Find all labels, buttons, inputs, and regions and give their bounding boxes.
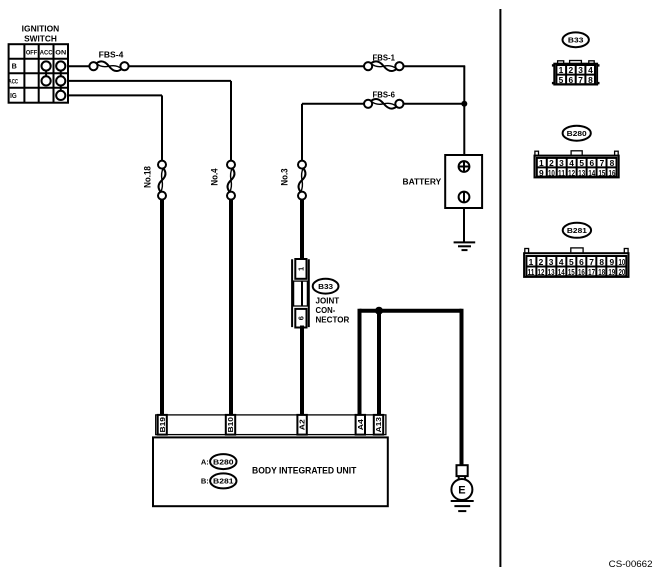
contact circle B-ACC: [42, 61, 51, 70]
SECTION: ground bus: [360, 307, 462, 466]
svg-text:6: 6: [579, 257, 584, 267]
svg-text:B: B: [12, 62, 17, 71]
connector B280 body: [535, 156, 619, 178]
SECTION: body integrated unit: [153, 415, 388, 506]
connector B33 pin numbers row 1: [559, 65, 594, 75]
svg-text:10: 10: [618, 257, 625, 267]
svg-text:NECTOR: NECTOR: [316, 315, 350, 325]
connector B33 tabs: [558, 61, 595, 65]
svg-text:5: 5: [559, 75, 564, 85]
svg-text:IG: IG: [10, 91, 17, 100]
SECTION: ground E: [451, 465, 474, 511]
connector B280 pin numbers row 2: [539, 168, 616, 178]
svg-text:16: 16: [578, 267, 585, 277]
svg-text:3: 3: [578, 65, 583, 75]
svg-text:CS-00662: CS-00662: [609, 559, 653, 570]
svg-text:4: 4: [559, 257, 564, 267]
svg-text:3: 3: [559, 158, 564, 168]
wire IG row to No.18 drop: [68, 94, 162, 96]
ground E terminal box: [457, 465, 468, 476]
wire FBS-6 to junction: [404, 103, 465, 105]
svg-text:B281: B281: [213, 477, 234, 486]
connector B281 pin numbers row 2: [527, 267, 625, 277]
svg-text:BODY INTEGRATED UNIT: BODY INTEGRATED UNIT: [252, 465, 357, 475]
svg-text:13: 13: [578, 168, 585, 178]
svg-text:6: 6: [568, 75, 573, 85]
svg-text:A:: A:: [201, 457, 209, 466]
svg-text:17: 17: [588, 267, 595, 277]
connector B281 tabs: [525, 248, 628, 253]
SECTION: right panel: [500, 9, 652, 570]
svg-text:6: 6: [589, 158, 594, 168]
svg-text:12: 12: [568, 168, 575, 178]
svg-text:FBS-4: FBS-4: [99, 51, 124, 60]
svg-text:4: 4: [588, 65, 593, 75]
unit body box: [153, 437, 388, 506]
svg-text:BATTERY: BATTERY: [403, 177, 442, 187]
svg-text:8: 8: [588, 75, 593, 85]
fuse No.3: [298, 161, 306, 200]
svg-text:16: 16: [609, 168, 616, 178]
svg-text:19: 19: [608, 267, 615, 277]
wire FBS-1 to battery drop: [404, 65, 465, 67]
battery box: [445, 155, 482, 208]
wire battery drop vertical: [463, 66, 465, 155]
wire ground bus horizontal (thick): [360, 309, 462, 313]
connector B280 cell grid: [537, 158, 617, 177]
wire No.18 to B19 (thick): [160, 199, 164, 416]
joint connector pin 1 box: [295, 259, 306, 279]
battery plus terminal: [459, 161, 470, 172]
svg-text:No.18: No.18: [142, 166, 152, 188]
wire A4 drop (thick): [358, 309, 362, 416]
svg-text:No.3: No.3: [280, 168, 290, 185]
svg-text:5: 5: [579, 158, 584, 168]
svg-text:5: 5: [569, 257, 574, 267]
svg-text:15: 15: [568, 267, 575, 277]
connector B281 cell grid: [526, 256, 626, 276]
wire A13 drop (thick): [377, 311, 381, 416]
connector B33 cell grid: [556, 65, 595, 84]
svg-text:8: 8: [599, 257, 604, 267]
connector B281 ellipse: [563, 223, 591, 238]
contact circle IG-ON: [56, 91, 65, 100]
pin A2 box: [297, 415, 306, 435]
svg-text:11: 11: [527, 267, 534, 277]
connector B33 pin numbers row 2: [559, 75, 594, 85]
svg-text:18: 18: [598, 267, 605, 277]
svg-text:OFF: OFF: [26, 49, 37, 56]
svg-text:7: 7: [578, 75, 583, 85]
svg-text:B33: B33: [318, 282, 333, 291]
wire joint connector to A2 (thick): [300, 326, 304, 416]
svg-text:B280: B280: [213, 458, 234, 467]
SECTION: top wires and FBS fuses: [68, 51, 467, 162]
connector B33 body: [554, 64, 597, 85]
contact circle B-ON: [56, 61, 65, 70]
svg-text:B:: B:: [201, 477, 209, 486]
svg-text:IGNITION: IGNITION: [22, 24, 60, 34]
svg-text:10: 10: [548, 168, 555, 178]
joint connector middle wire (thin): [301, 281, 303, 306]
ground (E): [451, 501, 474, 511]
svg-text:B10: B10: [226, 417, 235, 433]
svg-text:6: 6: [296, 316, 305, 320]
wire No.18 drop vertical: [161, 95, 163, 161]
connector B33 corner nubs: [552, 64, 600, 84]
pin B10 box: [226, 415, 235, 435]
unit connector B ellipse B281: [210, 473, 236, 488]
svg-text:SWITCH: SWITCH: [24, 33, 57, 43]
joint connector left rail: [291, 259, 293, 327]
wire B row to FBS-4: [68, 65, 89, 67]
wire battery to ground: [463, 208, 465, 242]
svg-text:9: 9: [539, 168, 544, 178]
svg-text:14: 14: [588, 168, 595, 178]
contact link ON column ACC-IG: [60, 86, 62, 91]
svg-text:ACC: ACC: [40, 49, 53, 56]
wire No.3 drop to FBS-6: [302, 103, 364, 105]
joint connector middle box: [294, 281, 308, 306]
svg-text:2: 2: [549, 158, 554, 168]
contact link ACC column: [45, 71, 47, 77]
svg-text:JOINT: JOINT: [316, 296, 340, 306]
svg-text:7: 7: [600, 158, 605, 168]
fuse No.18: [158, 161, 166, 200]
svg-text:9: 9: [609, 257, 614, 267]
svg-text:A4: A4: [356, 419, 365, 430]
svg-text:ON: ON: [55, 49, 66, 56]
svg-text:7: 7: [589, 257, 594, 267]
svg-text:A2: A2: [298, 419, 307, 430]
svg-text:1: 1: [529, 257, 534, 267]
fuse No.4: [227, 161, 235, 200]
wire No.4 drop vertical: [230, 81, 232, 162]
connector B281 pin numbers row 1: [529, 257, 626, 267]
battery minus terminal: [459, 192, 470, 203]
fuse FBS-6: [364, 99, 404, 109]
svg-text:ACC: ACC: [9, 78, 19, 85]
svg-text:E: E: [458, 485, 465, 497]
fuse FBS-4: [89, 61, 128, 71]
svg-text:B280: B280: [567, 129, 587, 138]
contact circle ACC-ON: [56, 76, 65, 85]
svg-text:13: 13: [548, 267, 555, 277]
svg-text:1: 1: [296, 267, 305, 271]
svg-text:FBS-6: FBS-6: [373, 90, 396, 99]
svg-text:1: 1: [559, 65, 564, 75]
svg-text:15: 15: [598, 168, 605, 178]
svg-text:4: 4: [569, 158, 574, 168]
wire ACC row to No.4 drop: [68, 80, 231, 82]
connector B281 body: [524, 253, 628, 277]
svg-text:8: 8: [610, 158, 615, 168]
connector B280 pin numbers row 1: [539, 158, 615, 168]
separator line: [499, 9, 501, 567]
SECTION: ignition switch: [9, 24, 69, 103]
contact link ON column B-ACC: [60, 71, 62, 77]
SECTION: vertical fuses No.18 No.4 No.3: [142, 161, 306, 416]
node junction A13: [375, 307, 383, 315]
joint connector right rail: [308, 259, 310, 327]
fuse FBS-1: [364, 61, 404, 71]
ground (battery): [454, 242, 476, 250]
wire No.3 to joint connector (thick): [300, 199, 304, 261]
svg-text:14: 14: [558, 267, 565, 277]
unit connector A ellipse B280: [210, 454, 236, 469]
svg-text:12: 12: [538, 267, 545, 277]
pin A13 box: [374, 415, 383, 435]
ignition switch table grid: [9, 44, 68, 102]
contact circle ACC-ACC: [42, 76, 51, 85]
svg-text:A13: A13: [374, 417, 383, 433]
ground E circle: [451, 479, 472, 500]
SECTION: battery: [403, 155, 483, 250]
wire No.4 to B10 (thick): [229, 199, 233, 416]
svg-text:11: 11: [558, 168, 565, 178]
connector B280 ellipse: [563, 126, 591, 141]
unit connector strip: [156, 415, 386, 435]
svg-text:B33: B33: [568, 36, 584, 45]
svg-text:3: 3: [549, 257, 554, 267]
connector B33 ellipse: [563, 32, 589, 47]
pin B19 box: [158, 415, 167, 435]
pin A4 box: [356, 415, 365, 435]
svg-text:20: 20: [618, 267, 625, 277]
svg-text:No.4: No.4: [210, 168, 220, 185]
wire FBS-4 to FBS-1: [129, 65, 364, 67]
joint connector pin 6 box: [295, 309, 306, 328]
connector B33 (joint) ellipse: [313, 279, 339, 294]
svg-text:1: 1: [539, 158, 544, 168]
SECTION: joint connector: [292, 259, 349, 416]
svg-text:2: 2: [568, 65, 573, 75]
wire No.3 drop vertical: [301, 104, 303, 162]
node junction FBS-6/battery: [461, 101, 467, 107]
ground E neck: [458, 476, 460, 480]
connector B280 tabs: [535, 151, 618, 156]
wire ground E drop (thick): [460, 309, 464, 466]
svg-text:B281: B281: [567, 226, 587, 235]
svg-text:B19: B19: [158, 417, 167, 433]
svg-text:2: 2: [539, 257, 544, 267]
